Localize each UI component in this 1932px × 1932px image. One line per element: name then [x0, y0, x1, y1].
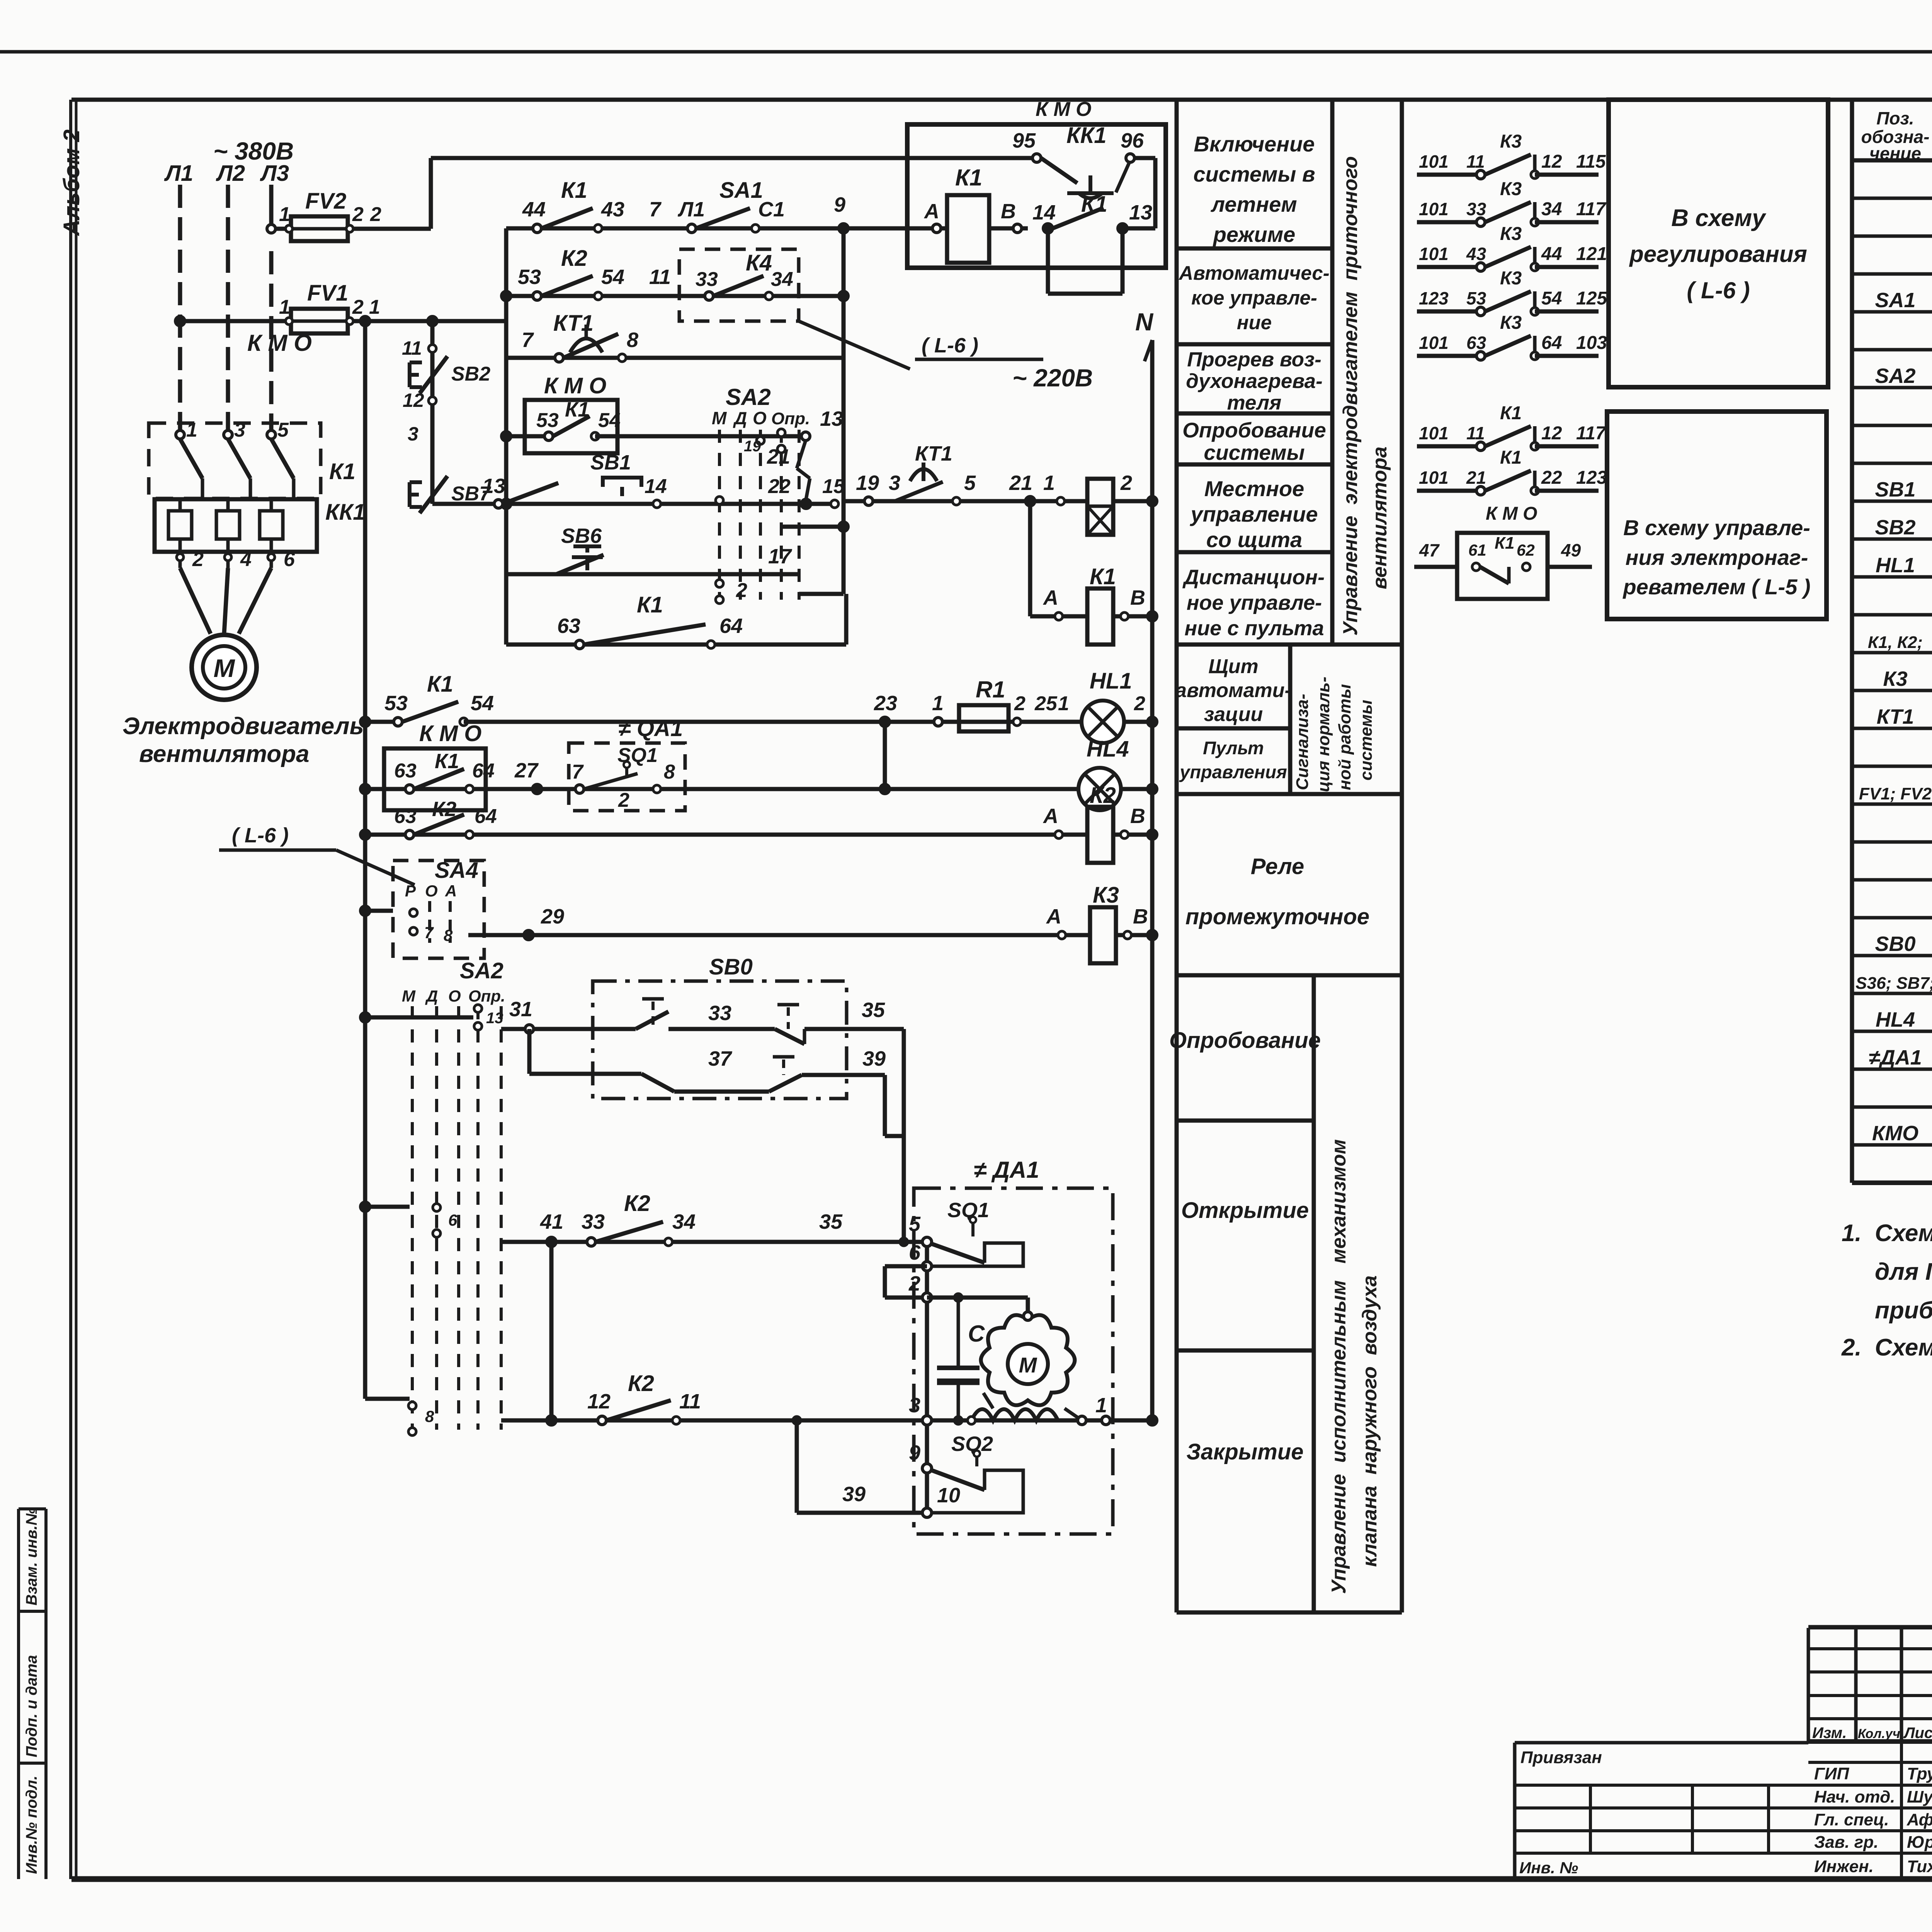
svg-text:43: 43 [601, 198, 624, 221]
svg-text:2: 2 [618, 789, 629, 811]
svg-text:С: С [968, 1321, 985, 1347]
svg-text:12: 12 [1541, 423, 1562, 444]
svg-text:К2: К2 [1090, 783, 1116, 808]
svg-text:ния электронаг-: ния электронаг- [1626, 545, 1808, 570]
svg-text:К1: К1 [1090, 564, 1116, 589]
svg-text:53: 53 [384, 692, 408, 715]
svg-text:К1: К1 [427, 672, 453, 697]
svg-text:49: 49 [1561, 540, 1581, 560]
svg-text:63: 63 [394, 805, 417, 828]
svg-text:2: 2 [192, 548, 204, 571]
svg-text:HL4: HL4 [1876, 1008, 1915, 1031]
svg-text:101: 101 [1419, 199, 1449, 219]
svg-text:Кол.уч: Кол.уч [1858, 1726, 1900, 1741]
svg-text:117: 117 [1576, 423, 1607, 444]
svg-text:вентилятора: вентилятора [1369, 447, 1391, 589]
svg-text:К3: К3 [1500, 224, 1522, 244]
svg-text:14: 14 [1032, 201, 1056, 224]
svg-text:19: 19 [744, 438, 761, 455]
svg-text:33: 33 [582, 1210, 605, 1233]
svg-text:К4: К4 [746, 250, 772, 276]
svg-text:35: 35 [862, 998, 885, 1022]
svg-text:2: 2 [352, 296, 364, 318]
svg-text:10: 10 [937, 1484, 960, 1507]
svg-text:115: 115 [1576, 151, 1606, 172]
svg-text:ГИП: ГИП [1814, 1764, 1850, 1783]
svg-text:Л2: Л2 [216, 161, 245, 186]
svg-text:FV2: FV2 [305, 189, 346, 214]
svg-text:21: 21 [1009, 471, 1032, 495]
svg-text:Зав. гр.: Зав. гр. [1814, 1833, 1878, 1852]
svg-text:К1, К2;: К1, К2; [1868, 633, 1923, 652]
svg-text:Прогрев воз-: Прогрев воз- [1187, 348, 1321, 371]
svg-text:33: 33 [1466, 199, 1486, 219]
svg-text:11: 11 [679, 1390, 701, 1413]
svg-text:5: 5 [277, 419, 289, 441]
svg-text:1: 1 [1043, 471, 1055, 495]
svg-text:К3: К3 [1500, 268, 1522, 289]
svg-text:Включение: Включение [1194, 132, 1315, 156]
svg-text:ние: ние [1237, 311, 1272, 333]
svg-text:34: 34 [1541, 199, 1562, 219]
svg-text:Л3: Л3 [260, 161, 289, 186]
svg-text:К1: К1 [637, 592, 663, 617]
svg-text:КТ1: КТ1 [915, 442, 952, 465]
svg-text:22: 22 [768, 475, 791, 498]
svg-text:5: 5 [964, 471, 976, 495]
svg-text:19: 19 [856, 471, 879, 495]
svg-text:ние с пульта: ние с пульта [1184, 617, 1324, 640]
svg-text:2. Схема регулирования лис: 2. Схема регулирования лист 6. [1841, 1334, 1932, 1361]
svg-text:А: А [1043, 586, 1058, 609]
svg-text:13: 13 [482, 474, 505, 498]
svg-text:Инжен.: Инжен. [1814, 1857, 1874, 1876]
svg-text:Лист: Лист [1903, 1725, 1932, 1742]
svg-text:13: 13 [486, 1010, 503, 1027]
svg-text:К2: К2 [628, 1371, 654, 1396]
svg-text:7: 7 [522, 328, 534, 352]
svg-text:3: 3 [889, 471, 900, 495]
svg-text:101: 101 [1419, 468, 1449, 488]
svg-text:8: 8 [664, 761, 675, 783]
svg-text:12: 12 [587, 1390, 611, 1413]
svg-text:11: 11 [1466, 151, 1485, 172]
svg-text:Афанина: Афанина [1906, 1810, 1932, 1829]
svg-text:Шунский: Шунский [1907, 1787, 1932, 1806]
svg-text:Открытие: Открытие [1181, 1198, 1309, 1223]
svg-text:Нач. отд.: Нач. отд. [1814, 1787, 1895, 1806]
svg-text:К1: К1 [329, 459, 355, 484]
svg-text:1: 1 [186, 419, 197, 441]
svg-text:М: М [712, 408, 727, 428]
svg-text:В: В [1130, 804, 1145, 828]
svg-text:Пульт: Пульт [1203, 738, 1264, 758]
svg-text:К2: К2 [432, 798, 456, 821]
svg-text:Л1: Л1 [164, 161, 193, 186]
svg-text:64: 64 [719, 614, 743, 638]
svg-text:41: 41 [540, 1210, 563, 1233]
svg-text:О: О [425, 882, 438, 900]
svg-text:промежуточное: промежуточное [1185, 904, 1369, 929]
svg-text:К М О: К М О [419, 721, 481, 746]
svg-text:12: 12 [1541, 151, 1562, 172]
svg-text:47: 47 [1419, 540, 1440, 560]
svg-text:регулирования: регулирования [1629, 241, 1807, 267]
svg-text:В схему: В схему [1671, 205, 1767, 231]
svg-text:25: 25 [1034, 692, 1058, 715]
svg-text:М: М [214, 654, 236, 682]
svg-text:7: 7 [572, 761, 584, 783]
svg-text:53: 53 [536, 409, 559, 432]
svg-text:К М О: К М О [247, 330, 312, 356]
svg-text:35: 35 [819, 1210, 843, 1233]
svg-text:SB1: SB1 [590, 451, 631, 474]
svg-text:Подп. и дата: Подп. и дата [23, 1655, 40, 1757]
svg-text:приборов согласно таблице п: приборов согласно таблице применяемости … [1875, 1297, 1932, 1324]
svg-text:КК1: КК1 [1066, 123, 1107, 148]
svg-text:11: 11 [402, 337, 422, 359]
svg-text:≠ QА1: ≠ QА1 [618, 716, 683, 741]
svg-text:23: 23 [874, 692, 897, 715]
svg-text:Дистанцион-: Дистанцион- [1182, 566, 1325, 589]
svg-text:SA1: SA1 [719, 178, 763, 203]
svg-text:39: 39 [862, 1047, 886, 1070]
svg-text:К М О: К М О [1036, 98, 1092, 121]
svg-text:Управление электродвигателем: Управление электродвигателем приточного [1339, 156, 1362, 636]
svg-text:125: 125 [1576, 288, 1607, 309]
svg-text:( L-6 ): ( L-6 ) [1687, 277, 1750, 303]
svg-text:34: 34 [672, 1210, 696, 1233]
svg-text:Трушин: Трушин [1907, 1764, 1932, 1783]
svg-text:FV1: FV1 [307, 281, 348, 306]
svg-text:С1: С1 [758, 198, 785, 221]
svg-text:12: 12 [403, 389, 424, 411]
svg-text:О: О [448, 987, 461, 1005]
svg-text:Автоматичес-: Автоматичес- [1178, 262, 1329, 284]
svg-text:К3: К3 [1883, 667, 1907, 690]
svg-text:21: 21 [1466, 468, 1486, 488]
svg-text:К1: К1 [955, 165, 982, 190]
svg-text:Опробование: Опробование [1169, 1028, 1321, 1053]
svg-text:37: 37 [708, 1047, 733, 1070]
svg-text:7: 7 [649, 198, 662, 221]
svg-text:31: 31 [509, 998, 532, 1021]
svg-text:HL1: HL1 [1876, 554, 1915, 577]
svg-text:системы: системы [1204, 440, 1304, 464]
svg-text:SQ2: SQ2 [951, 1432, 993, 1456]
svg-text:( L-6 ): ( L-6 ) [232, 824, 289, 847]
svg-text:SB2: SB2 [451, 363, 490, 385]
svg-text:1: 1 [279, 203, 290, 226]
svg-text:FV1; FV2: FV1; FV2 [1859, 784, 1932, 803]
svg-text:101: 101 [1419, 244, 1449, 264]
svg-text:режиме: режиме [1213, 222, 1296, 247]
svg-text:101: 101 [1419, 423, 1449, 443]
svg-text:Щит: Щит [1208, 655, 1258, 678]
svg-text:1: 1 [1095, 1394, 1107, 1417]
svg-text:R1: R1 [976, 677, 1005, 702]
svg-text:44: 44 [1541, 244, 1562, 264]
svg-text:SA1: SA1 [1875, 289, 1915, 312]
svg-text:Опр.: Опр. [771, 409, 810, 428]
svg-text:33: 33 [708, 1002, 731, 1025]
svg-text:ревателем ( L-5 ): ревателем ( L-5 ) [1622, 575, 1810, 599]
svg-text:2: 2 [352, 203, 364, 226]
svg-text:М: М [402, 987, 416, 1005]
svg-text:Поз.: Поз. [1876, 108, 1914, 128]
svg-text:системы в: системы в [1193, 162, 1315, 186]
svg-text:А: А [1043, 804, 1058, 828]
svg-text:Инв. №: Инв. № [1519, 1859, 1578, 1877]
svg-text:Л1: Л1 [677, 198, 705, 221]
svg-text:со щита: со щита [1206, 527, 1302, 552]
svg-text:SB0: SB0 [1875, 932, 1915, 956]
svg-text:духонагрева-: духонагрева- [1186, 370, 1322, 393]
svg-text:К1: К1 [435, 750, 459, 773]
svg-text:зации: зации [1204, 703, 1263, 726]
svg-text:3: 3 [408, 423, 418, 445]
svg-text:В: В [1001, 200, 1016, 223]
svg-text:управления: управления [1179, 762, 1287, 782]
svg-text:15: 15 [822, 475, 845, 498]
svg-text:М: М [1019, 1353, 1037, 1377]
svg-text:53: 53 [518, 265, 541, 289]
svg-text:В схему управле-: В схему управле- [1623, 515, 1810, 540]
svg-text:22: 22 [1541, 468, 1562, 488]
svg-text:2: 2 [370, 203, 381, 226]
svg-text:14: 14 [645, 475, 667, 498]
svg-text:К1: К1 [561, 178, 587, 203]
svg-text:54: 54 [598, 409, 621, 432]
svg-text:В: В [1133, 905, 1148, 928]
svg-text:101: 101 [1419, 151, 1449, 172]
svg-text:О: О [753, 408, 767, 428]
svg-text:летнем: летнем [1210, 192, 1297, 216]
svg-text:6: 6 [448, 1211, 457, 1229]
svg-text:HL4: HL4 [1087, 736, 1129, 762]
svg-text:~ 220В: ~ 220В [1012, 364, 1093, 392]
svg-text:SA2: SA2 [460, 958, 503, 983]
svg-text:К1: К1 [1500, 403, 1522, 423]
svg-text:КК1: КК1 [325, 500, 366, 525]
svg-text:Опробование: Опробование [1182, 418, 1326, 442]
svg-text:К М О: К М О [1486, 503, 1537, 524]
svg-text:33: 33 [696, 268, 718, 291]
svg-text:автомати-: автомати- [1175, 679, 1291, 702]
svg-text:К3: К3 [1500, 131, 1522, 152]
svg-text:53: 53 [1466, 288, 1486, 308]
svg-text:9: 9 [834, 193, 845, 216]
svg-text:SQ1: SQ1 [947, 1199, 989, 1222]
svg-text:39: 39 [842, 1483, 866, 1506]
svg-text:62: 62 [1517, 541, 1535, 559]
svg-text:Гл. спец.: Гл. спец. [1814, 1810, 1889, 1829]
svg-text:Изм.: Изм. [1812, 1725, 1847, 1742]
svg-text:ное управле-: ное управле- [1187, 591, 1322, 614]
svg-text:61: 61 [1468, 541, 1486, 559]
svg-text:9: 9 [909, 1441, 920, 1464]
svg-text:2: 2 [1134, 692, 1145, 715]
svg-text:≠ДА1: ≠ДА1 [1869, 1046, 1922, 1069]
svg-text:Привязан: Привязан [1520, 1748, 1602, 1767]
svg-text:SB0: SB0 [709, 954, 753, 980]
svg-text:( L-6 ): ( L-6 ) [922, 334, 978, 357]
svg-text:Взам. инв.№: Взам. инв.№ [23, 1508, 40, 1605]
svg-text:КМО: КМО [1872, 1122, 1918, 1145]
svg-text:К1: К1 [1495, 534, 1515, 553]
svg-text:КТ1: КТ1 [1877, 705, 1914, 728]
svg-text:Управление исполнительным м: Управление исполнительным механизмом [1328, 1139, 1350, 1594]
svg-text:К3: К3 [1500, 179, 1522, 199]
svg-text:А: А [1046, 905, 1061, 928]
svg-text:8: 8 [425, 1407, 434, 1425]
svg-text:К1: К1 [565, 398, 589, 421]
svg-text:К2: К2 [561, 246, 587, 271]
svg-text:44: 44 [522, 198, 546, 221]
svg-text:2: 2 [908, 1272, 920, 1295]
svg-text:5: 5 [909, 1213, 921, 1236]
svg-text:63: 63 [394, 760, 417, 782]
svg-text:теля: теля [1227, 391, 1282, 414]
svg-text:N: N [1135, 308, 1154, 336]
svg-text:для П2, с указанием в: для П2, с указанием в индексов в обознач… [1875, 1259, 1932, 1285]
svg-text:системы: системы [1357, 700, 1376, 781]
svg-text:Электродвигатель: Электродвигатель [122, 713, 364, 740]
svg-text:≠ ДА1: ≠ ДА1 [974, 1157, 1039, 1183]
svg-text:123: 123 [1419, 288, 1449, 308]
svg-text:64: 64 [474, 805, 497, 828]
svg-text:SA2: SA2 [1875, 364, 1915, 388]
svg-text:Опр.: Опр. [468, 987, 505, 1005]
svg-text:кое управле-: кое управле- [1191, 287, 1317, 309]
svg-text:3: 3 [234, 419, 245, 441]
svg-text:Альбом 2: Альбом 2 [59, 129, 84, 236]
svg-text:Инв.№ подл.: Инв.№ подл. [23, 1776, 40, 1874]
svg-text:8: 8 [627, 328, 638, 352]
svg-text:2: 2 [1014, 692, 1026, 715]
svg-text:1: 1 [1058, 692, 1069, 715]
svg-text:101: 101 [1419, 333, 1449, 353]
svg-text:SB6: SB6 [561, 524, 602, 548]
svg-text:103: 103 [1576, 333, 1607, 353]
svg-text:Д: Д [425, 987, 438, 1005]
svg-text:2: 2 [1120, 471, 1132, 495]
svg-text:13: 13 [820, 407, 843, 430]
svg-text:Местное: Местное [1204, 476, 1304, 501]
svg-text:27: 27 [514, 759, 539, 782]
svg-text:К3: К3 [1500, 313, 1522, 333]
svg-text:Юрикова: Юрикова [1907, 1833, 1932, 1852]
svg-text:ной работы: ной работы [1335, 684, 1354, 790]
svg-text:1: 1 [279, 296, 290, 318]
svg-text:54: 54 [601, 265, 624, 289]
svg-text:1. Схема выполнена для при: 1. Схема выполнена для приточной системы… [1842, 1220, 1932, 1247]
svg-text:54: 54 [471, 692, 494, 715]
svg-text:В: В [1130, 586, 1145, 609]
svg-text:43: 43 [1466, 244, 1486, 264]
svg-text:А: А [923, 200, 939, 223]
svg-text:SA4: SA4 [435, 858, 478, 883]
svg-text:121: 121 [1576, 244, 1607, 264]
svg-text:Д: Д [733, 408, 747, 428]
svg-text:11: 11 [649, 265, 671, 289]
svg-text:Тихонова: Тихонова [1907, 1857, 1932, 1876]
svg-text:95: 95 [1012, 129, 1036, 152]
svg-text:S36; SB7;: S36; SB7; [1855, 974, 1932, 993]
svg-text:клапана наружного воздуха: клапана наружного воздуха [1359, 1276, 1381, 1567]
svg-text:63: 63 [1466, 333, 1486, 353]
svg-text:64: 64 [472, 760, 495, 782]
svg-text:Р: Р [405, 882, 416, 900]
svg-text:HL1: HL1 [1090, 668, 1132, 694]
svg-text:SA2: SA2 [726, 384, 771, 410]
svg-text:А: А [445, 882, 457, 900]
svg-text:1: 1 [369, 296, 380, 318]
svg-text:SB2: SB2 [1875, 516, 1915, 539]
svg-text:вентилятора: вентилятора [139, 741, 309, 767]
svg-text:ция нормаль-: ция нормаль- [1314, 677, 1333, 792]
svg-text:34: 34 [771, 268, 793, 291]
svg-text:54: 54 [1541, 288, 1562, 309]
svg-text:Реле: Реле [1251, 854, 1304, 879]
svg-text:SB1: SB1 [1875, 478, 1915, 501]
svg-text:64: 64 [1541, 333, 1562, 353]
svg-text:29: 29 [541, 905, 564, 928]
svg-text:117: 117 [1576, 199, 1607, 219]
svg-text:4: 4 [240, 548, 252, 571]
svg-text:6: 6 [284, 548, 295, 571]
svg-text:Сигнализа-: Сигнализа- [1293, 694, 1312, 790]
svg-text:К3: К3 [1093, 883, 1119, 908]
svg-text:2: 2 [736, 579, 747, 602]
svg-text:К М О: К М О [544, 373, 606, 398]
svg-text:1: 1 [932, 692, 944, 715]
svg-text:3: 3 [909, 1394, 920, 1417]
svg-text:6: 6 [909, 1241, 921, 1264]
svg-text:управление: управление [1190, 502, 1318, 526]
svg-text:63: 63 [557, 614, 580, 638]
svg-text:Закрытие: Закрытие [1186, 1439, 1303, 1464]
svg-text:96: 96 [1121, 129, 1144, 152]
svg-text:13: 13 [1129, 201, 1152, 224]
svg-text:К2: К2 [624, 1191, 650, 1216]
svg-text:11: 11 [1466, 423, 1485, 443]
svg-text:123: 123 [1576, 468, 1607, 488]
svg-text:чение: чение [1869, 143, 1921, 163]
svg-text:К1: К1 [1500, 447, 1522, 468]
